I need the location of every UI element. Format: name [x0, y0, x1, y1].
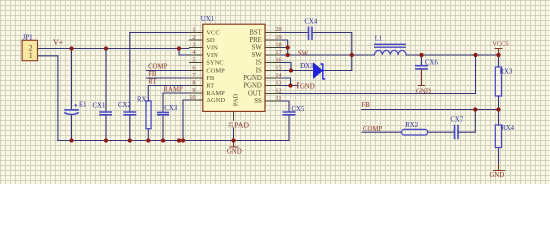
wire CX1 bottom lead	[105, 115, 107, 141]
svg-text:PAD: PAD	[234, 121, 249, 130]
capacitor CX2	[123, 112, 136, 115]
wire CX2 bottom lead	[129, 115, 131, 141]
wire RX4 bottom lead	[498, 148, 500, 165]
wire E1 bottom lead	[71, 115, 73, 141]
svg-text:BST: BST	[249, 30, 262, 37]
wire RX3 top lead	[498, 55, 500, 67]
pin stub 21 PAD bottom UX1	[233, 111, 235, 120]
junction node ground rail at E1	[69, 138, 73, 142]
pin stubs left UX1	[189, 33, 203, 101]
svg-text:VIN: VIN	[206, 45, 218, 52]
svg-text:CX4: CX4	[304, 18, 317, 25]
junction node ground rail at PAD	[231, 138, 235, 142]
capacitor CX4	[309, 27, 313, 41]
junction node FB at CX7 riser	[473, 107, 477, 111]
svg-text:VIN: VIN	[206, 52, 218, 59]
svg-text:E1: E1	[79, 101, 87, 108]
svg-text:18: 18	[275, 41, 281, 48]
ground power port below RX4	[493, 164, 505, 171]
svg-text:1: 1	[192, 26, 195, 33]
wire RX1 bottom lead	[147, 129, 149, 141]
svg-text:5: 5	[192, 56, 195, 63]
diode DX1 (schottky)	[314, 63, 326, 79]
resistor RX4	[495, 125, 501, 148]
wire AGND pin10 to ground rail	[183, 100, 203, 141]
junction node ground rail at CX1	[104, 138, 108, 142]
wire L1 left	[352, 54, 375, 56]
svg-text:RX3: RX3	[500, 69, 513, 76]
svg-text:CX1: CX1	[93, 103, 106, 110]
junction node on V+ rail at E1	[69, 46, 73, 50]
wire pin14 PGND tie down	[265, 78, 291, 86]
wire CX4 right to SW node	[312, 33, 352, 56]
svg-text:AGND: AGND	[206, 97, 225, 104]
wire VCC riser down to CX2	[129, 33, 131, 113]
svg-text:SW: SW	[252, 45, 263, 52]
svg-text:SYNC: SYNC	[206, 60, 223, 67]
svg-text:3: 3	[192, 41, 195, 48]
svg-text:PGND: PGND	[243, 75, 262, 82]
wire CX3 bottom lead	[162, 115, 164, 141]
junction node FB at RX3/RX4	[496, 107, 500, 111]
wire CX6 top lead	[421, 55, 423, 66]
svg-text:8: 8	[192, 79, 195, 86]
svg-text:DX1: DX1	[300, 63, 313, 70]
junction node SW at CX4/DX1/L1	[350, 53, 354, 57]
svg-text:SW: SW	[252, 52, 263, 59]
junction node ground rail at RX1	[146, 138, 150, 142]
junction node IS tie pin15	[289, 68, 293, 72]
junction node VOUT at VCC5	[496, 53, 500, 57]
svg-text:CX6: CX6	[425, 60, 438, 67]
pin names right UX1	[243, 30, 262, 106]
svg-text:SW: SW	[298, 51, 309, 58]
capacitor CX6	[415, 66, 428, 69]
ground power port below PAD	[229, 141, 238, 148]
junction node VOUT at OUT riser	[473, 53, 477, 57]
svg-text:GND: GND	[300, 83, 315, 90]
svg-text:FB: FB	[362, 102, 371, 109]
svg-text:UX1: UX1	[201, 16, 214, 23]
wire pin20 BST to CX4	[265, 32, 308, 34]
resistor RX1	[146, 101, 151, 129]
svg-text:FB: FB	[148, 71, 157, 78]
wire CX1 top lead	[105, 49, 107, 113]
wire PAD pin21 down to ground rail	[233, 128, 235, 141]
svg-text:PAD: PAD	[232, 93, 239, 106]
svg-text:OUT: OUT	[248, 91, 263, 98]
pin numbers right UX1	[275, 26, 282, 102]
wire pin15 IS to diode anode	[265, 70, 314, 72]
resistor RX3	[495, 67, 501, 96]
svg-text:L1: L1	[375, 36, 383, 43]
svg-text:SD: SD	[206, 37, 215, 44]
junction node ground rail at AGND riser	[181, 138, 185, 142]
svg-text:IS: IS	[256, 60, 262, 67]
wire RT to pin8 and RX1 top	[148, 86, 203, 101]
svg-text:11: 11	[275, 95, 281, 102]
wire E1 top lead	[71, 49, 73, 110]
svg-text:7: 7	[192, 72, 195, 79]
svg-text:GND: GND	[416, 88, 431, 95]
svg-text:17: 17	[275, 49, 281, 56]
svg-text:PRE: PRE	[249, 37, 261, 44]
junction node on V+ rail at pin4 drop	[177, 46, 181, 50]
wire FB line	[362, 109, 499, 111]
svg-text:V+: V+	[53, 38, 64, 47]
wire ground rail	[58, 140, 289, 142]
wire V+ rail from JP1 pin2 to IC pin3	[38, 48, 189, 50]
svg-text:15: 15	[275, 64, 281, 71]
junction node ground rail at CX3	[161, 138, 165, 142]
svg-text:CX3: CX3	[164, 105, 177, 112]
junction node SW tie pin17	[286, 53, 290, 57]
svg-text:13: 13	[275, 79, 281, 86]
capacitor E1 (electrolytic)	[64, 104, 79, 114]
wire RX3 bottom lead to FB line	[498, 96, 500, 110]
wire VCC pin1 horizontal	[130, 32, 203, 34]
wire pin13 PGND to GND port	[265, 85, 297, 87]
svg-text:IS: IS	[256, 68, 262, 75]
svg-text:VCC5: VCC5	[492, 41, 508, 48]
wire SW row pin17 to L1 node	[265, 54, 352, 56]
junction node on V+ rail at CX1	[104, 46, 108, 50]
resistor RX2	[402, 129, 428, 135]
inductor L1	[374, 44, 406, 55]
junction node VOUT at CX6	[419, 53, 423, 57]
junction node ground rail stray	[177, 138, 181, 142]
ground power port below CX6	[418, 69, 425, 86]
op-amp U1 body: IC UX1	[203, 24, 265, 111]
svg-text:16: 16	[275, 56, 281, 63]
svg-text:9: 9	[192, 87, 195, 94]
wire CX5 riser from pin11	[265, 101, 289, 112]
svg-text:RT: RT	[206, 83, 214, 90]
svg-text:COMP: COMP	[148, 64, 167, 71]
wire diode cathode up to SW node	[323, 55, 352, 71]
svg-text:12: 12	[275, 87, 281, 94]
svg-text:20: 20	[275, 26, 281, 33]
wire OUT pin12 to riser	[265, 55, 476, 94]
wire FB stub to pin7	[147, 77, 203, 79]
wire pin4 drop from V+ rail	[179, 49, 189, 56]
svg-text:JP1: JP1	[23, 34, 34, 42]
pin stubs right UX1	[265, 33, 279, 102]
svg-text:6: 6	[192, 64, 195, 71]
svg-text:RT: RT	[148, 79, 157, 86]
wire RAMP to pin9 and CX3 top	[163, 93, 203, 112]
wire pin16 IS tie down	[265, 63, 291, 71]
capacitor CX5	[283, 112, 296, 115]
svg-text:10: 10	[189, 94, 195, 101]
wire L1 right to VCC5 node	[406, 54, 499, 56]
connector JP1	[22, 40, 37, 60]
ground power port at PGND pins	[297, 82, 299, 89]
sheet background	[0, 0, 550, 184]
svg-text:RAMP: RAMP	[164, 87, 183, 94]
svg-text:COMP: COMP	[206, 68, 225, 75]
wire RX4 top lead	[498, 110, 500, 126]
pin names left UX1	[206, 30, 225, 105]
svg-text:SS: SS	[254, 98, 262, 105]
capacitor CX3	[157, 112, 169, 114]
svg-text:CX2: CX2	[118, 102, 131, 109]
svg-text:GND: GND	[227, 149, 242, 156]
wire COMP stub to pin6	[147, 70, 203, 72]
wire pin18 SW stub	[265, 47, 288, 49]
junction node SW tie pin18	[286, 45, 290, 49]
svg-text:GND: GND	[490, 172, 505, 179]
wire CX5 bottom lead	[288, 115, 290, 141]
svg-text:1: 1	[29, 51, 33, 60]
capacitor CX7	[455, 125, 459, 140]
svg-text:2: 2	[192, 34, 195, 41]
wire COMP line to RX2	[362, 131, 402, 133]
svg-text:RX2: RX2	[405, 122, 418, 129]
wire pin19 PRE tie down	[265, 40, 288, 55]
junction node PGND tie pin13	[288, 83, 292, 87]
junction node ground rail at CX2	[128, 138, 132, 142]
capacitor CX1	[99, 112, 112, 115]
svg-text:CX7: CX7	[450, 117, 463, 124]
svg-text:RX4: RX4	[501, 125, 514, 132]
svg-text:RAMP: RAMP	[206, 90, 225, 97]
wire RX2 right to CX7	[428, 131, 455, 133]
svg-text:19: 19	[275, 34, 281, 41]
svg-text:PGND: PGND	[243, 83, 262, 90]
pin numbers left UX1	[189, 26, 196, 101]
svg-text:FB: FB	[206, 75, 215, 82]
wire JP1 pin1 to ground rail	[38, 56, 58, 141]
svg-text:VCC: VCC	[206, 30, 219, 37]
svg-text:CX5: CX5	[292, 106, 305, 113]
power port VCC5	[495, 49, 503, 56]
wire CX7 right riser up to FB	[458, 110, 475, 133]
svg-text:14: 14	[275, 72, 282, 79]
svg-text:RX1: RX1	[137, 96, 150, 103]
svg-text:COMP: COMP	[363, 126, 382, 133]
